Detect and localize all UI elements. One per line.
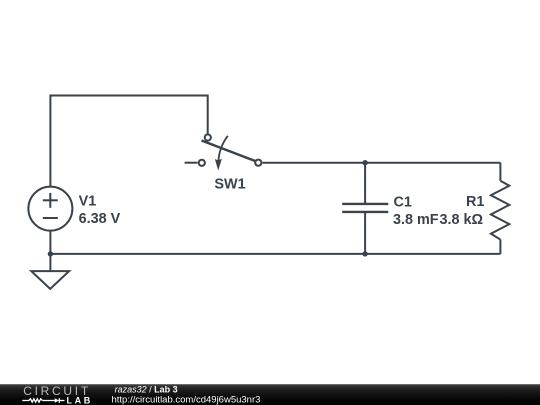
wire C1 top lead	[364, 163, 366, 204]
wire C1 bottom lead	[364, 212, 366, 254]
junction dot C1 bottom node	[362, 251, 367, 256]
svg-text:LAB: LAB	[67, 395, 93, 405]
wire R1 top lead	[499, 163, 501, 181]
svg-text:C1: C1	[394, 195, 412, 211]
switch SW1	[199, 134, 262, 170]
wire bottom net	[50, 253, 500, 255]
svg-text:http://circuitlab.com/cd49j6w5: http://circuitlab.com/cd49j6w5u3nr3	[112, 394, 261, 405]
junction dot switch-C1 node	[362, 160, 367, 165]
voltage source V1	[28, 187, 72, 231]
svg-text:razas32 / Lab 3: razas32 / Lab 3	[115, 384, 178, 394]
wire top from V1 to switch	[50, 96, 207, 187]
svg-text:SW1: SW1	[214, 176, 245, 192]
wire V1 bottom lead	[49, 231, 51, 254]
svg-text:R1: R1	[466, 194, 484, 210]
wire switch to R1	[263, 162, 501, 164]
svg-text:V1: V1	[79, 194, 97, 210]
ground	[31, 271, 69, 289]
footer bar	[0, 384, 540, 405]
svg-text:6.38 V: 6.38 V	[79, 211, 121, 227]
wire ground lead	[49, 254, 51, 271]
CircuitLab logo resistor-diode squiggle	[22, 398, 64, 403]
junction dot ground node	[48, 251, 53, 256]
wire R1 bottom lead	[499, 240, 501, 254]
resistor R1	[491, 181, 509, 240]
capacitor C1	[342, 204, 388, 212]
svg-text:3.8 kΩ: 3.8 kΩ	[439, 212, 483, 228]
wire switch left stub	[185, 162, 198, 164]
svg-text:3.8 mF: 3.8 mF	[393, 212, 439, 228]
